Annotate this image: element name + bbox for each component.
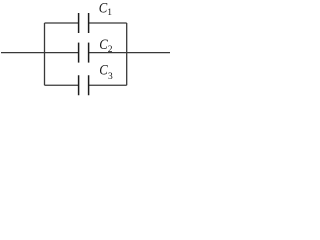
svg-text:3: 3 bbox=[108, 72, 113, 82]
svg-text:2: 2 bbox=[108, 45, 113, 55]
svg-text:1: 1 bbox=[107, 8, 112, 18]
